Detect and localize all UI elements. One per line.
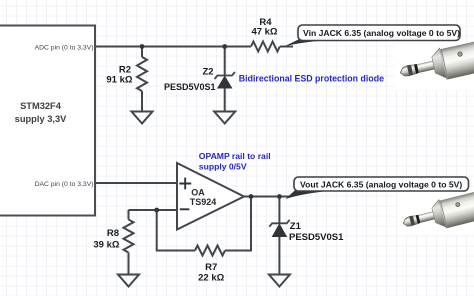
svg-text:OA: OA — [191, 187, 205, 197]
svg-text:R8: R8 — [107, 228, 119, 239]
svg-text:PESD5V0S1: PESD5V0S1 — [164, 82, 216, 92]
svg-text:ADC pin (0 to 3,3V): ADC pin (0 to 3,3V) — [35, 44, 94, 51]
svg-text:OPAMP rail to rail: OPAMP rail to rail — [199, 151, 271, 161]
svg-text:supply 0/5V: supply 0/5V — [199, 162, 247, 172]
svg-text:22 kΩ: 22 kΩ — [198, 273, 224, 284]
svg-text:47 kΩ: 47 kΩ — [251, 27, 277, 38]
svg-text:PESD5V0S1: PESD5V0S1 — [289, 232, 344, 243]
svg-text:R7: R7 — [205, 262, 217, 273]
svg-text:Vin JACK 6.35 (analog voltage: Vin JACK 6.35 (analog voltage 0 to 5V) — [303, 28, 460, 38]
svg-text:STM32F4: STM32F4 — [20, 101, 62, 111]
svg-text:Vout JACK 6.35 (analog voltage: Vout JACK 6.35 (analog voltage 0 to 5V) — [300, 180, 462, 190]
svg-text:Z1: Z1 — [290, 221, 302, 232]
svg-text:DAC pin (0 to 3,3V): DAC pin (0 to 3,3V) — [35, 181, 94, 188]
svg-text:TS924: TS924 — [190, 197, 217, 207]
svg-text:supply 3,3V: supply 3,3V — [15, 114, 67, 124]
svg-text:Bidirectional ESD protection d: Bidirectional ESD protection diode — [239, 74, 384, 84]
svg-text:Z2: Z2 — [203, 67, 214, 78]
svg-text:39 kΩ: 39 kΩ — [93, 240, 119, 251]
svg-text:91 kΩ: 91 kΩ — [106, 75, 132, 86]
